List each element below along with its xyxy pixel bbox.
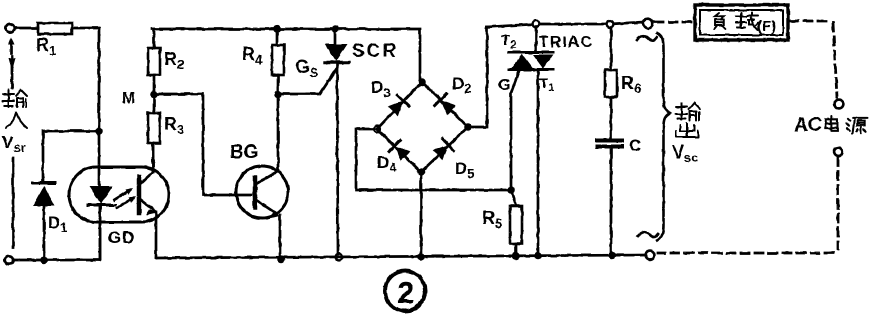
svg-text:R5: R5	[482, 208, 502, 231]
svg-text:SCR: SCR	[352, 41, 398, 62]
ring junction R6 / top-right wire	[607, 21, 614, 28]
input current arrow (up)	[8, 37, 15, 53]
junction C / ground rail	[608, 251, 616, 259]
svg-text:G: G	[498, 77, 510, 94]
svg-text:D1: D1	[48, 213, 68, 235]
SCR cathode terminal ring on ground rail	[336, 254, 343, 261]
bridge edge wire bottom-right	[421, 127, 468, 172]
dashed return wire to output terminal	[658, 252, 833, 255]
resistor R3	[148, 113, 160, 143]
svg-text:GS: GS	[295, 57, 319, 80]
svg-text:R3: R3	[164, 114, 184, 137]
triac TRIAC	[509, 53, 553, 70]
svg-text:D5: D5	[455, 159, 475, 181]
output terminal bottom (Vsc)	[646, 251, 655, 260]
resistor R2	[148, 48, 160, 75]
thyristor SCR	[325, 29, 349, 254]
node A junction (R1 / D1 / GD LED)	[95, 127, 103, 135]
wire top-right to R6	[610, 27, 613, 70]
bridge edge wire top-left	[377, 82, 422, 129]
label fu (load) glyph	[714, 13, 725, 29]
ring junction T2 / top-right wire	[533, 21, 540, 28]
svg-text:Vsr: Vsr	[2, 133, 26, 155]
wire T1 lead to ground rail	[537, 70, 540, 255]
diode D2	[435, 94, 457, 116]
dashed wire down to AC source +	[833, 23, 837, 97]
label shu (input) glyph	[3, 90, 27, 107]
wire R1 to node A	[72, 28, 99, 131]
input terminal (bottom-left, Vsr -)	[5, 256, 13, 264]
wire top to R2	[153, 29, 156, 48]
svg-text:R4: R4	[242, 44, 263, 67]
svg-text:R6: R6	[621, 73, 641, 96]
junction top wire / SCR anode	[331, 25, 339, 33]
wire bridge right vertex riser to top-right wire	[468, 27, 487, 127]
wire node M to BG base	[154, 94, 251, 195]
bridge right vertex junction	[464, 123, 472, 131]
wire BG collector to R4	[277, 94, 280, 171]
label ru (input) glyph	[6, 112, 27, 128]
junction bridge bottom / ground rail	[417, 253, 425, 261]
junction R5 / ground rail	[512, 252, 520, 260]
wire bottom-left return (terminal to LED cathode riser)	[13, 206, 100, 260]
node gate/R5 junction	[507, 186, 515, 194]
label yuan (AC source) glyph	[847, 118, 867, 134]
svg-text:(F): (F)	[757, 18, 776, 35]
output terminal top (Vsc)	[643, 19, 653, 29]
bridge edge wire top-right	[422, 82, 468, 127]
wire R5 to ground rail	[515, 244, 518, 256]
svg-text:D3: D3	[371, 78, 391, 100]
wire R2 to R3	[153, 75, 156, 113]
svg-text:D2: D2	[452, 74, 472, 96]
AC source terminal +	[835, 100, 844, 109]
AC tilde bottom	[638, 232, 658, 237]
input terminal (top-left, Vsr +)	[6, 24, 14, 32]
diode D4	[389, 140, 411, 162]
svg-text:TRIAC: TRIAC	[539, 34, 593, 51]
AC source terminal -	[834, 148, 843, 157]
wire R4 to node B	[277, 75, 280, 94]
svg-text:R2: R2	[164, 49, 184, 72]
diode D1	[33, 183, 55, 260]
top-right wire	[487, 22, 644, 27]
bridge top vertex junction	[418, 78, 426, 86]
GD light arrow 1	[114, 188, 133, 200]
svg-text:R1: R1	[36, 35, 56, 58]
svg-text:C: C	[629, 136, 641, 155]
load box F outer	[695, 5, 788, 40]
dashed wire AC source - down	[837, 158, 840, 249]
bridge left vertex terminal ring	[374, 126, 380, 132]
label chu (output) glyph	[676, 123, 698, 137]
svg-text:GD: GD	[108, 228, 136, 247]
load box F inner	[700, 10, 783, 35]
resistor R4	[272, 45, 284, 75]
junction BG emitter / ground rail	[277, 255, 285, 263]
svg-text:T2: T2	[501, 32, 516, 51]
junction T1 / ground rail	[534, 252, 542, 260]
input current arrow (down)	[9, 56, 16, 88]
transistor BG (NPN)	[236, 166, 288, 219]
svg-text:Vsc: Vsc	[672, 142, 698, 165]
bottom ground rail (right segment)	[156, 255, 650, 258]
svg-text:BG: BG	[230, 142, 259, 163]
svg-text:M: M	[122, 90, 135, 107]
bridge edge wire bottom-left	[377, 129, 421, 172]
dashed wire load to AC source corner	[790, 20, 830, 23]
wire node A to D1	[43, 131, 99, 183]
wire bridge bottom vertex to ground rail	[420, 172, 423, 257]
svg-text:2: 2	[397, 275, 414, 310]
label shu (output) glyph	[676, 103, 700, 120]
label zai (load) glyph	[736, 13, 758, 31]
node B junction (R4 / BG collector / SCR gate)	[274, 90, 282, 98]
wire gate node to R5	[511, 190, 516, 205]
node M junction	[150, 90, 158, 98]
resistor R5	[510, 206, 522, 244]
optocoupler U GD body	[69, 167, 169, 222]
svg-text:T1: T1	[539, 75, 554, 94]
wire R6 to C	[610, 97, 613, 139]
resistor R6	[605, 70, 617, 97]
junction D1 anode / bottom return	[40, 256, 48, 264]
dashed wire output to load (F)	[655, 21, 693, 24]
output brace Vsc	[657, 33, 670, 241]
wire TRIAC gate G	[511, 71, 519, 190]
GD phototransistor	[139, 143, 157, 258]
diode D5	[432, 139, 454, 161]
svg-text:AC: AC	[794, 114, 821, 136]
svg-text:D4: D4	[377, 153, 397, 175]
wire top to R4	[276, 29, 279, 45]
gate wire GS to SCR	[278, 68, 337, 94]
wire BG emitter to ground rail	[279, 215, 282, 259]
GD internal LED	[88, 131, 115, 260]
wire terminal to R1	[15, 27, 38, 30]
GD light arrow 2	[117, 196, 136, 208]
capacitor C	[597, 141, 622, 147]
wire bridge left vertex to R5/gate node	[356, 129, 511, 190]
wire T2 lead	[535, 27, 538, 52]
input rail lower segment	[12, 158, 15, 248]
figure number circle 2	[385, 271, 425, 311]
junction top wire / R4	[273, 25, 281, 33]
diode D3	[387, 95, 409, 117]
top supply wire	[152, 29, 420, 82]
bridge bottom vertex junction	[417, 168, 425, 176]
resistor R1	[38, 23, 72, 34]
label dian (AC source) glyph	[826, 116, 838, 131]
AC tilde top	[637, 36, 657, 41]
wire C to ground rail	[610, 148, 613, 255]
wire R3 to phototransistor collector	[152, 143, 155, 172]
